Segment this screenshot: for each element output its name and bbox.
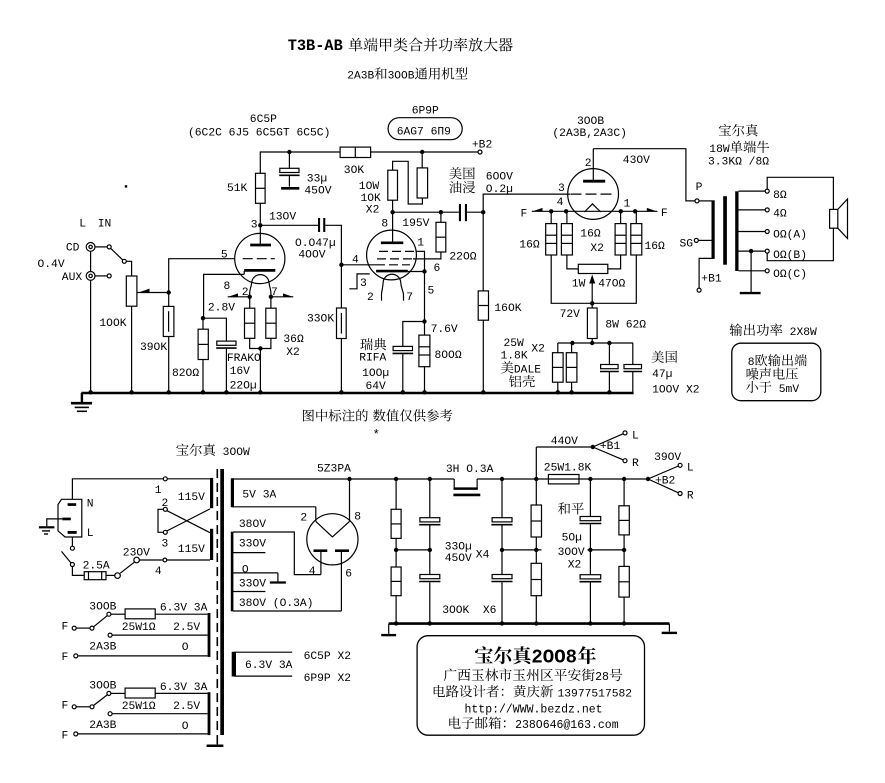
svg-text:8: 8 bbox=[748, 357, 755, 369]
junction col3 mid bbox=[500, 548, 504, 552]
svg-text:22Oµ: 22Oµ bbox=[230, 381, 257, 393]
info title Baoerzhen 2008 bbox=[475, 646, 596, 668]
svg-text:N: N bbox=[87, 499, 94, 511]
svg-text:4OOV: 4OOV bbox=[298, 250, 325, 262]
hg2 switch contact 300B bbox=[107, 691, 111, 695]
wire 220R bottom to screen pin 6 bbox=[413, 252, 441, 275]
svg-text:16Ω: 16Ω bbox=[519, 240, 540, 252]
terminal +B1 opt bbox=[697, 274, 722, 293]
svg-text:7.6V: 7.6V bbox=[431, 324, 458, 336]
wire 36R bottoms join bbox=[250, 338, 271, 393]
wire 10K left bottom to node 8 bbox=[392, 200, 394, 212]
svg-text:16V: 16V bbox=[230, 366, 251, 378]
svg-text:1W: 1W bbox=[572, 279, 586, 291]
svg-text:33OV: 33OV bbox=[239, 539, 266, 551]
svg-text:R: R bbox=[632, 458, 639, 470]
svg-text:23OV: 23OV bbox=[123, 548, 150, 560]
svg-text:X2: X2 bbox=[531, 344, 545, 356]
svg-text:44OV: 44OV bbox=[551, 436, 578, 448]
svg-text:8W 62Ω: 8W 62Ω bbox=[605, 320, 646, 332]
arrow F left bbox=[533, 208, 542, 211]
capacitor 330u col2 lower bbox=[419, 550, 440, 624]
label power transformer 300W bbox=[176, 444, 188, 456]
svg-text:2: 2 bbox=[162, 498, 169, 510]
svg-text:DALE: DALE bbox=[514, 364, 541, 376]
tube V2 6P9P envelope bbox=[367, 230, 417, 280]
V4 plate right bbox=[335, 551, 352, 611]
svg-text:3: 3 bbox=[162, 539, 169, 551]
resistor 300K col6 lower bbox=[619, 535, 629, 624]
switch contact CD bbox=[107, 245, 111, 249]
+B1 L terminal bbox=[593, 430, 639, 447]
title T3B-AB amplifier bbox=[288, 37, 513, 55]
primary winding 115V top bar bbox=[210, 478, 213, 508]
svg-text:6.3V 3A: 6.3V 3A bbox=[160, 682, 208, 694]
svg-text:1OOµ: 1OOµ bbox=[362, 368, 389, 380]
junction filament pin2 bbox=[248, 295, 252, 299]
switch mains arm bbox=[62, 551, 71, 563]
wire N to primary terminal 1 bbox=[72, 479, 163, 500]
hg2 resistor 25W 1R bbox=[111, 688, 208, 713]
svg-text:8: 8 bbox=[381, 219, 388, 231]
svg-text:5V 3A: 5V 3A bbox=[242, 490, 276, 502]
capacitor 0.2u 600V oil bbox=[449, 167, 513, 221]
+B1 R terminal bbox=[593, 447, 639, 470]
svg-text:6.3V 3A: 6.3V 3A bbox=[245, 660, 293, 672]
svg-text:195V: 195V bbox=[402, 218, 429, 230]
svg-text:6: 6 bbox=[434, 263, 441, 275]
svg-text:5: 5 bbox=[221, 250, 228, 262]
wire cathode node to FRAKO cap bbox=[203, 318, 226, 341]
jack AUX bbox=[62, 272, 95, 285]
switch pivot bbox=[122, 259, 126, 263]
junction rail 10K branch bbox=[420, 150, 424, 154]
hg1 F terminal row1 bbox=[62, 622, 95, 634]
label 330u 450V X4 bbox=[445, 541, 490, 565]
tap 4R bbox=[739, 208, 787, 221]
svg-text:3OOB: 3OOB bbox=[89, 601, 116, 613]
svg-text:8Ω: 8Ω bbox=[773, 190, 787, 202]
svg-text:38OV (O.3A): 38OV (O.3A) bbox=[239, 598, 314, 610]
svg-text:3OOB: 3OOB bbox=[388, 71, 415, 83]
wire 330K bottom to ground bbox=[340, 339, 342, 393]
svg-text:36Ω: 36Ω bbox=[283, 334, 304, 346]
svg-text:4Ω: 4Ω bbox=[773, 209, 787, 221]
wire 1.8K bottoms to ground bbox=[558, 382, 572, 393]
svg-text:64V: 64V bbox=[366, 381, 387, 393]
stray dot bbox=[125, 185, 127, 187]
svg-text:L: L bbox=[87, 528, 94, 540]
svg-text:2.8V: 2.8V bbox=[208, 303, 235, 315]
wire 160K bottom to ground bbox=[482, 320, 484, 393]
junction 0RB ground bbox=[749, 249, 753, 253]
svg-text:13OV: 13OV bbox=[269, 212, 296, 224]
rectifier V4 5Z3PA envelope bbox=[307, 514, 358, 565]
svg-text:5mV: 5mV bbox=[772, 384, 799, 396]
junction FRAKO ground bbox=[224, 390, 228, 394]
wire wiper node to 6C5P grid pin5 bbox=[169, 259, 235, 293]
info box frame bbox=[417, 636, 644, 736]
choke 3H 0.3A bbox=[446, 464, 494, 495]
wire node3 to coupling cap bbox=[260, 224, 318, 226]
junction bus col4 bbox=[534, 621, 538, 625]
wire pin8 to B+ rail bbox=[349, 479, 351, 521]
wire plate6 to 380V 0.3A tap bbox=[233, 610, 341, 612]
tap 0R C bbox=[739, 269, 808, 281]
svg-text:4: 4 bbox=[155, 566, 162, 578]
wire speaker loop bottom bbox=[767, 228, 833, 261]
wire AUX jack to contact bbox=[95, 275, 107, 277]
junction cathode RC node 7.6V bbox=[422, 319, 458, 336]
svg-text:28: 28 bbox=[595, 671, 609, 684]
svg-text:3: 3 bbox=[251, 220, 258, 232]
svg-text:F: F bbox=[62, 652, 69, 664]
wire CD jack to switch contact bbox=[95, 246, 107, 248]
junction jack ground bbox=[88, 390, 92, 394]
wire speaker loop top bbox=[767, 177, 833, 209]
svg-text:16Ω: 16Ω bbox=[645, 241, 666, 253]
wire 10K series zigzag bbox=[393, 161, 423, 204]
hg1 label 2A3B 0 bbox=[89, 641, 189, 654]
svg-text:1OW: 1OW bbox=[359, 181, 380, 193]
junction rail col6 bbox=[622, 477, 626, 481]
svg-text:O: O bbox=[182, 642, 189, 654]
svg-text:1: 1 bbox=[155, 485, 162, 497]
plug prong L bbox=[68, 531, 77, 534]
wire 36R tops bbox=[250, 297, 271, 308]
svg-text:45OV: 45OV bbox=[445, 553, 472, 565]
hg2 F terminal row3 bbox=[62, 731, 208, 743]
node 3 plate bbox=[251, 212, 297, 232]
V1 cathode pin 8 bbox=[224, 270, 276, 293]
svg-text:L: L bbox=[79, 219, 86, 231]
ground symbol main bbox=[71, 393, 92, 411]
fuse 2.5A bbox=[83, 561, 110, 580]
subtitle 2A3B/300B models bbox=[347, 67, 467, 82]
filament feed arrow left bbox=[228, 293, 250, 296]
wire P to primary bbox=[699, 200, 712, 202]
speaker bbox=[830, 199, 848, 239]
svg-text:5Z3PA: 5Z3PA bbox=[317, 464, 351, 476]
junction 390K ground bbox=[167, 390, 171, 394]
svg-text:43OV: 43OV bbox=[623, 155, 650, 167]
info address line bbox=[444, 668, 622, 684]
capacitor 33u 450V decoupling bbox=[279, 152, 332, 198]
junction +B1 node bbox=[591, 441, 621, 453]
svg-text:3: 3 bbox=[558, 183, 565, 195]
svg-text:16OK: 16OK bbox=[494, 303, 521, 315]
node row cathode network bbox=[558, 342, 633, 344]
filament feed arrow right bbox=[271, 293, 293, 296]
wire cathode node down 5 bbox=[425, 272, 435, 322]
resistor 16R hum pot leg 2 bbox=[561, 211, 572, 255]
svg-text:2A3B: 2A3B bbox=[89, 720, 116, 732]
capacitor 330u col3 lower bbox=[491, 550, 512, 624]
wire 5V box to rectifier pin2 bbox=[315, 507, 317, 522]
junction 220R top bbox=[439, 210, 443, 214]
svg-text:(6C2C 6J5 6C5GT 6C5C): (6C2C 6J5 6C5GT 6C5C) bbox=[188, 128, 330, 140]
junction 36R ground bbox=[258, 390, 262, 394]
tube V1 6C5P envelope bbox=[235, 233, 285, 283]
terminal P bbox=[695, 182, 703, 203]
svg-text:6OOV: 6OOV bbox=[486, 172, 513, 184]
svg-text:4: 4 bbox=[352, 255, 359, 267]
wire cathode to node bbox=[204, 274, 245, 318]
junction pin 1 bbox=[619, 199, 631, 214]
wire cap to 300B grid node bbox=[467, 211, 483, 213]
label 10W 10K X2 bbox=[359, 181, 381, 217]
svg-text:2: 2 bbox=[300, 513, 307, 525]
svg-text:F: F bbox=[661, 208, 668, 220]
AC plug body bbox=[58, 499, 82, 537]
tube V3 300B envelope bbox=[568, 169, 619, 220]
HV winding box bbox=[231, 532, 234, 612]
svg-text:13977517582: 13977517582 bbox=[558, 688, 633, 700]
junction RIFA ground bbox=[401, 390, 405, 394]
pot wiper arrow down bbox=[589, 275, 595, 304]
svg-text:RIFA: RIFA bbox=[359, 353, 386, 365]
svg-text:5Oµ: 5Oµ bbox=[562, 533, 582, 545]
resistor 300K col1 upper bbox=[391, 479, 401, 538]
input labels L IN bbox=[79, 219, 111, 231]
V2 filament legs pins 2 7 bbox=[367, 283, 413, 304]
svg-text:IN: IN bbox=[98, 219, 112, 231]
svg-text:X2: X2 bbox=[286, 347, 300, 359]
svg-text:X2: X2 bbox=[568, 560, 582, 572]
resistor 1.8K 25W right bbox=[566, 343, 577, 382]
junction row 62R bbox=[590, 341, 594, 345]
ground symbol opt bbox=[740, 292, 761, 294]
svg-text:3OOB: 3OOB bbox=[577, 116, 604, 128]
svg-text:3H O.3A: 3H O.3A bbox=[446, 464, 494, 476]
svg-text:2.5V: 2.5V bbox=[173, 622, 200, 634]
label box 6AG7 6Pi9 bbox=[388, 118, 462, 140]
node cathode 2.8V junction bbox=[201, 303, 235, 321]
label heping 50u 300V X2 bbox=[558, 502, 585, 571]
V1 filament legs pins 2 7 bbox=[242, 282, 278, 299]
wire SG to primary bbox=[698, 239, 711, 241]
primary terminal 3 circle bbox=[162, 530, 169, 550]
wire inner 16R to 470R pot bbox=[567, 255, 621, 269]
svg-text:3.3KΩ /8Ω: 3.3KΩ /8Ω bbox=[708, 157, 769, 169]
junction +B2 node bbox=[646, 452, 682, 488]
svg-text:X2: X2 bbox=[366, 205, 380, 217]
hg2 F terminal row1 bbox=[62, 700, 95, 712]
resistor 62R 8W cathode bbox=[587, 303, 646, 338]
junction grid pin4 node bbox=[339, 263, 343, 267]
svg-text:X2: X2 bbox=[590, 243, 604, 255]
wire FRAKO bottom to ground bbox=[225, 349, 227, 393]
wire switch to fuse bbox=[72, 567, 84, 576]
junction rail col1 bbox=[394, 477, 398, 481]
hg1 switch arm bbox=[94, 616, 108, 627]
plug prong N bbox=[68, 503, 77, 506]
svg-text:6AG7 6Π9: 6AG7 6Π9 bbox=[397, 126, 451, 138]
T2 core bar bbox=[723, 196, 727, 265]
svg-text:16Ω: 16Ω bbox=[580, 229, 601, 241]
svg-text:7: 7 bbox=[406, 292, 413, 304]
wire 820R bottom to ground bbox=[202, 360, 204, 393]
junction 72V node bbox=[560, 301, 595, 321]
svg-text:2.5A: 2.5A bbox=[83, 561, 110, 573]
svg-text:3OOK X6: 3OOK X6 bbox=[442, 605, 496, 617]
terminal +B2 bbox=[472, 140, 492, 155]
svg-text:39OK: 39OK bbox=[140, 342, 167, 354]
switch contact mains top bbox=[70, 546, 74, 550]
arrow F right bbox=[647, 208, 656, 211]
svg-text:4: 4 bbox=[309, 566, 316, 578]
V2 control grid pin 4 bbox=[341, 255, 410, 267]
info designer line bbox=[434, 685, 632, 700]
svg-text:18W: 18W bbox=[709, 144, 730, 156]
junction 1.8K ground b bbox=[569, 390, 573, 394]
capacitor 330u col3 upper bbox=[491, 479, 512, 550]
wire RIFA bottom to ground bbox=[402, 354, 404, 393]
wire plate to P terminal 430V bbox=[593, 149, 695, 201]
junction rail col4 bbox=[534, 477, 538, 481]
junction 800R ground bbox=[422, 390, 426, 394]
filament wire F row bbox=[532, 210, 658, 212]
junction rail col3 bbox=[500, 477, 504, 481]
wire coupling cap to 6P9P grid node bbox=[325, 225, 341, 264]
svg-text:X4: X4 bbox=[476, 550, 490, 562]
junction rail col2 bbox=[428, 477, 432, 481]
svg-text:8: 8 bbox=[354, 512, 361, 524]
resistor 16R hum pot leg 3 bbox=[615, 211, 626, 255]
B+ rail right segment bbox=[477, 478, 648, 480]
label output transformer brand bbox=[708, 124, 769, 169]
junction wiper node bbox=[167, 290, 171, 294]
junction bus col3 bbox=[500, 621, 504, 625]
wire plate4 to 380V tap bbox=[233, 532, 321, 575]
wire earth prong to ground bbox=[47, 519, 63, 526]
resistor 10K 10W left bbox=[388, 170, 398, 200]
junction rail pin8 bbox=[347, 477, 351, 481]
resistor 10K 10W right bbox=[417, 168, 428, 198]
junction row 1.8K bbox=[570, 341, 574, 345]
junction cathode pin5 node bbox=[422, 269, 426, 273]
junction filament outer right bbox=[633, 209, 637, 213]
potentiometer 470R 1W hum balance bbox=[572, 264, 626, 290]
svg-text:T3B-AB: T3B-AB bbox=[288, 37, 343, 55]
PSU ground symbol left bbox=[381, 624, 396, 636]
resistor 25W 1.8K dropper bbox=[544, 462, 592, 484]
heater winding 300B group2 bbox=[208, 692, 211, 735]
resistor 160K grid leak bbox=[478, 291, 522, 320]
pot wiper arrow bbox=[137, 289, 169, 293]
svg-text:1OOK: 1OOK bbox=[99, 318, 126, 330]
hg1 2.5V tap row2 bbox=[108, 633, 208, 637]
note box output noise bbox=[732, 343, 821, 401]
PSU ground bus bbox=[389, 622, 670, 625]
svg-text:OΩ(C): OΩ(C) bbox=[773, 269, 807, 281]
label 47u 100V X2 bbox=[652, 351, 700, 397]
cross link winding1 bottom to terminal3 bbox=[167, 509, 210, 531]
V3 grid pin 3 bbox=[558, 183, 615, 195]
heater winding 6.3V box bbox=[232, 652, 293, 677]
capacitor 50u col5 upper bbox=[580, 479, 602, 550]
terminal SG bbox=[680, 238, 699, 250]
V1 plate bbox=[250, 225, 271, 245]
wire terminal4 to winding2 bbox=[167, 559, 210, 561]
wire outer 16R to 72V node bbox=[551, 255, 636, 303]
svg-text:2A3B: 2A3B bbox=[89, 641, 116, 653]
svg-text:O: O bbox=[242, 564, 249, 576]
tap 0R A bbox=[739, 230, 808, 242]
svg-text:33OK: 33OK bbox=[307, 314, 334, 326]
junction 330K ground bbox=[339, 390, 343, 394]
svg-text:FRAKO: FRAKO bbox=[227, 353, 261, 365]
resistor 330K grid return bbox=[307, 265, 346, 339]
potentiometer 100K bbox=[99, 276, 137, 330]
svg-text:51K: 51K bbox=[227, 183, 248, 195]
T1 core dashed line bbox=[216, 469, 218, 744]
svg-text:25W1Ω: 25W1Ω bbox=[122, 701, 156, 713]
junction filament pin7 bbox=[269, 295, 273, 299]
T2 secondary winding bbox=[735, 191, 738, 271]
tap 0R B bbox=[739, 249, 808, 262]
junction pot ground bbox=[129, 390, 133, 394]
svg-text:33OV: 33OV bbox=[239, 578, 266, 590]
V2 grid3 pin 1 tied to cathode bbox=[379, 238, 425, 272]
svg-text:8OOΩ: 8OOΩ bbox=[435, 350, 462, 362]
svg-text:115V: 115V bbox=[178, 544, 205, 556]
svg-text:6: 6 bbox=[345, 569, 352, 581]
svg-text:OΩ(A): OΩ(A) bbox=[773, 230, 807, 242]
heater winding 300B group1 bbox=[208, 613, 211, 657]
wire jack sleeves to ground bbox=[90, 251, 92, 393]
resistor 1.8K 25W left bbox=[553, 343, 564, 382]
junction 160K ground bbox=[481, 390, 485, 394]
svg-text:F: F bbox=[62, 731, 69, 743]
wire node to RIFA cap bbox=[403, 322, 425, 347]
wire terminal1 to winding1 bbox=[167, 478, 210, 480]
svg-text:O: O bbox=[182, 721, 189, 733]
resistor 51K plate load bbox=[227, 173, 265, 203]
capacitor 47u right bbox=[623, 343, 642, 393]
resistor 36R right bbox=[266, 308, 276, 338]
junction bus col1 bbox=[394, 621, 398, 625]
V3 filament V shape bbox=[584, 204, 600, 212]
svg-text:47µ: 47µ bbox=[652, 369, 672, 381]
PSU ground symbol right bbox=[662, 624, 677, 633]
wire 390K top bbox=[168, 293, 170, 307]
svg-text:47OΩ: 47OΩ bbox=[598, 279, 625, 291]
svg-text:O.4V: O.4V bbox=[38, 259, 65, 271]
wire grid node down to 160K bbox=[482, 212, 484, 291]
svg-text:3OOB: 3OOB bbox=[89, 681, 116, 693]
junction 47u ground bbox=[607, 390, 611, 394]
B+ rail left segment bbox=[232, 478, 454, 480]
junction rail col5 bbox=[588, 477, 592, 481]
wire 220R top stub bbox=[440, 212, 442, 222]
T1 core ground bbox=[207, 735, 224, 746]
switch contact AUX bbox=[107, 274, 111, 278]
wire 51K to node 3 bbox=[259, 203, 261, 225]
wire 390K bottom to ground bbox=[168, 337, 170, 393]
junction col4 mid bbox=[534, 548, 538, 552]
svg-text:L: L bbox=[687, 463, 694, 475]
resistor 300K col4 lower bbox=[531, 537, 541, 624]
junction rail 33u bbox=[287, 150, 291, 154]
resistor 820R bbox=[172, 329, 208, 380]
svg-text:25W1Ω: 25W1Ω bbox=[122, 622, 156, 634]
junction filament outer left bbox=[549, 209, 553, 213]
hg1 resistor 25W 1R bbox=[111, 609, 208, 634]
label 25W 1.8K X2 DALE bbox=[501, 338, 545, 387]
jack CD bbox=[66, 243, 95, 255]
svg-text:2OO8: 2OO8 bbox=[531, 647, 577, 669]
